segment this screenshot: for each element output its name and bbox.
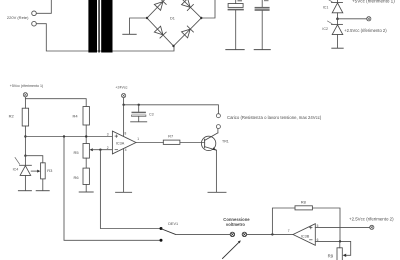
wire R2 bottom — [24, 126, 26, 156]
capacitor C1 lead top — [235, 0, 237, 4]
svg-text:220V (Rete): 220V (Rete) — [7, 15, 29, 20]
terminal +24Vcc — [122, 94, 126, 98]
label C1 (cut) — [238, 0, 243, 1]
svg-text:2: 2 — [107, 146, 109, 150]
wire junction to +2.5V terminal — [338, 18, 367, 20]
svg-text:+5Vcc (riferimento 1): +5Vcc (riferimento 1) — [10, 84, 43, 88]
node inverting input — [339, 240, 341, 242]
bridge rectifier D1 edge bottom-right — [174, 18, 202, 46]
wire pin 8 supply — [123, 105, 125, 137]
node IC4 top — [24, 155, 26, 157]
wire pin 5 to terminal — [315, 226, 369, 228]
node R4 bottom — [85, 135, 87, 137]
node rail op-amp supply — [122, 104, 124, 106]
ground C1 — [226, 49, 244, 51]
resistor R6 — [83, 158, 89, 184]
svg-text:R7: R7 — [168, 133, 174, 138]
ground bridge left — [123, 33, 136, 35]
terminal +2.5V bottom — [370, 225, 374, 229]
terminal carico bottom — [216, 125, 220, 129]
capacitor C2 lead top — [261, 0, 263, 7]
svg-text:8: 8 — [125, 131, 127, 135]
op-amp IC3B — [293, 224, 315, 246]
svg-text:+5Vcc (riferimento 1): +5Vcc (riferimento 1) — [352, 0, 395, 3]
ground R6 — [79, 191, 93, 193]
svg-text:voltmetro: voltmetro — [226, 222, 246, 227]
capacitor C2 — [255, 7, 270, 11]
svg-text:3: 3 — [107, 132, 109, 136]
wire node to R3 — [25, 156, 42, 163]
wire non-inverting input line — [25, 136, 112, 138]
wire R7 to base — [180, 142, 205, 144]
wire voltmeter to op-amp output — [247, 233, 293, 235]
terminal voltmeter left — [230, 232, 234, 236]
svg-text:1: 1 — [137, 137, 139, 141]
svg-text:+2.5Vcc (riferimento 2): +2.5Vcc (riferimento 2) — [349, 217, 394, 222]
svg-text:R6: R6 — [74, 175, 80, 180]
diode D1a — [154, 0, 166, 10]
wire primary bottom to transformer return — [37, 24, 174, 51]
wire primary top — [37, 0, 52, 13]
capacitor C1 — [228, 4, 244, 11]
terminal carico top — [216, 114, 220, 118]
node bridge left — [146, 17, 148, 19]
bridge rectifier D1 edge top-right — [183, 0, 201, 18]
transformer T1 core — [98, 0, 99, 53]
ground IC4 — [18, 190, 31, 192]
transistor TR1 — [201, 129, 217, 192]
svg-text:Carico (Resistenza o lavoro te: Carico (Resistenza o lavoro tensione, ma… — [227, 115, 322, 120]
node wiper — [99, 149, 101, 151]
label C2 (cut) — [264, 0, 269, 1]
wire switch pole to voltmeter — [176, 233, 231, 235]
node R2 bottom — [24, 135, 26, 137]
terminal voltmeter right — [242, 232, 246, 236]
node output feedback — [271, 233, 273, 235]
svg-text:R2: R2 — [9, 114, 15, 119]
wire R6 to ground — [85, 185, 87, 192]
wire bridge right up — [203, 0, 216, 18]
arrow to voltmeter terminals — [223, 240, 241, 258]
capacitor C3 — [132, 105, 146, 122]
zener IC1 — [328, 0, 343, 17]
svg-text:IC1: IC1 — [323, 6, 329, 10]
svg-text:DEV1: DEV1 — [168, 222, 178, 226]
wire wiper to switch upper contact — [100, 150, 159, 229]
svg-text:IC3A: IC3A — [116, 142, 125, 146]
svg-text:R3: R3 — [47, 168, 53, 173]
wiper R9 — [343, 254, 347, 257]
svg-text:IC3B: IC3B — [301, 235, 310, 239]
resistor R4 — [83, 107, 89, 126]
wire R8 to inverting node — [312, 208, 340, 241]
wire +5 rail to R4 — [25, 99, 86, 107]
svg-text:4: 4 — [125, 148, 127, 152]
wire +24 rail — [124, 98, 219, 114]
svg-text:R9: R9 — [328, 254, 334, 259]
wire C1 down — [235, 10, 237, 49]
switch DEV1 upper contact — [160, 227, 163, 230]
diode D1b — [182, 0, 194, 11]
terminal +5Vcc — [23, 93, 27, 97]
op-amp IC3A — [112, 131, 136, 154]
diode D1d — [182, 26, 194, 38]
svg-text:R8: R8 — [301, 199, 307, 204]
wire C2 down — [261, 11, 263, 50]
svg-text:C3: C3 — [149, 112, 154, 116]
svg-text:+24Vcc: +24Vcc — [115, 86, 127, 90]
ground R3 — [36, 190, 49, 192]
terminal 220V input bottom — [32, 21, 37, 26]
terminal 220V input top — [32, 11, 37, 16]
svg-text:TR1: TR1 — [222, 140, 229, 144]
resistor R2 — [22, 108, 28, 126]
node bridge bottom — [172, 45, 174, 47]
bridge rectifier D1 edge bottom-left — [147, 18, 174, 46]
wire node to switch lower contact — [64, 137, 160, 241]
node switch branch — [63, 135, 65, 137]
wire R4 bottom — [85, 125, 87, 144]
ground C3 — [131, 121, 147, 123]
ground op-amp pin 4 — [116, 191, 132, 193]
node IC1 IC2 junction — [336, 18, 339, 21]
terminal +2.5V top — [367, 17, 371, 21]
bridge rectifier D1 edge top-left — [147, 0, 164, 18]
switch DEV1 lower contact — [160, 239, 163, 242]
wire op-amp output — [136, 142, 163, 144]
resistor R8 — [295, 206, 312, 210]
wire R3 to ground — [42, 179, 44, 191]
wire bridge left to ground — [130, 18, 146, 34]
svg-text:IC2: IC2 — [322, 27, 328, 31]
svg-text:R5: R5 — [74, 150, 80, 155]
wire feedback up to R8 — [272, 208, 295, 234]
ground IC2 — [332, 47, 343, 49]
resistor R7 — [163, 140, 180, 144]
potentiometer R5 — [83, 144, 89, 159]
trimmer R3 — [41, 163, 46, 179]
svg-text:R4: R4 — [73, 114, 79, 119]
svg-text:+2.5Vcc (riferimento 2): +2.5Vcc (riferimento 2) — [344, 28, 387, 33]
wire IC2 to ground — [337, 35, 339, 48]
transformer T1 secondary winding — [101, 0, 112, 53]
wire IC1 stub top — [337, 0, 339, 3]
zener IC2 — [328, 18, 343, 35]
node rail C3 — [138, 104, 140, 106]
node bridge right — [200, 17, 202, 19]
svg-text:D1: D1 — [170, 16, 175, 20]
wire pin 4 to ground — [123, 149, 125, 193]
ground TR1 emitter — [208, 191, 226, 193]
wiper R5 — [90, 148, 113, 151]
wire pin 6 inverting input — [315, 241, 350, 255]
switch DEV1 lever — [162, 229, 176, 235]
ground C2 — [254, 49, 270, 51]
transformer T1 primary winding — [88, 0, 97, 53]
svg-text:IC4: IC4 — [13, 167, 19, 171]
wire IC4 reference arrow to R3 — [31, 170, 40, 173]
wire +5 terminal down — [24, 97, 26, 108]
diode D1c — [154, 26, 166, 38]
svg-text:7: 7 — [288, 229, 290, 233]
shunt reference IC4 — [15, 156, 31, 191]
potentiometer R9 — [337, 241, 342, 260]
